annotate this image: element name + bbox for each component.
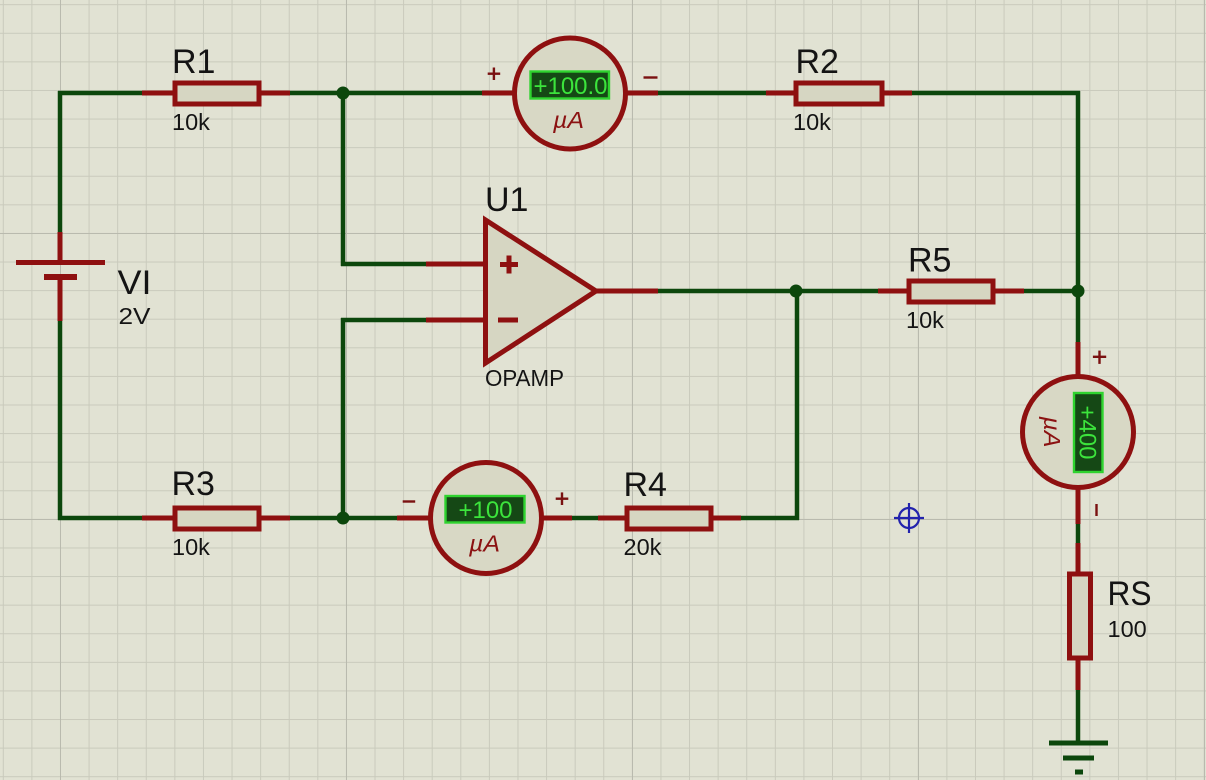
ground (1049, 741, 1108, 775)
label AM2 uA (468, 531, 500, 557)
wire right column vertical (1076, 91, 1081, 344)
label RS (1108, 575, 1152, 613)
op-amp U1 (426, 220, 658, 363)
wire AM2 to R4 (570, 516, 600, 521)
wire opamp output to R5 (656, 289, 880, 294)
wire AM3 to RS (1076, 522, 1081, 545)
svg-text:10k: 10k (793, 109, 831, 135)
svg-text:µA: µA (1039, 415, 1065, 447)
label R4 value 20k (624, 534, 662, 560)
svg-text:+100.0: +100.0 (533, 73, 607, 100)
svg-text:2V: 2V (119, 303, 151, 329)
label R3 value 10k (172, 534, 210, 560)
svg-text:U1: U1 (485, 181, 528, 219)
wire left column upper vertical (58, 91, 63, 234)
label AM2 plus (556, 492, 569, 505)
label R2 value 10k (793, 109, 831, 135)
junction node B (R3 right) (337, 512, 350, 525)
label R5 (908, 242, 951, 280)
svg-text:10k: 10k (172, 109, 210, 135)
wire node A vertical to noninverting input (341, 91, 346, 266)
wire R2 to top-right corner (910, 91, 1080, 96)
resistor R3 (142, 508, 290, 529)
resistor R2 (766, 83, 912, 104)
label U1 (485, 181, 528, 219)
label U1 value OPAMP (485, 365, 564, 391)
wire noninverting input horizontal (341, 262, 428, 267)
label R1 value 10k (172, 109, 210, 135)
label VI value 2V (119, 303, 151, 329)
wire top-left horizontal (58, 91, 144, 96)
junction node C (output / feedback) (790, 285, 803, 298)
label R5 value 10k (906, 307, 944, 333)
resistor R1 (142, 83, 290, 104)
label AM3 plus (1093, 351, 1106, 364)
svg-text:+400: +400 (1074, 405, 1101, 459)
origin marker (894, 503, 924, 533)
svg-text:+100: +100 (458, 497, 512, 524)
resistor RS (1070, 543, 1091, 690)
wire feedback vertical (795, 289, 800, 520)
wire RS to ground (1076, 688, 1081, 745)
battery VI (16, 232, 105, 321)
svg-text:10k: 10k (906, 307, 944, 333)
wire inverting input vertical (341, 318, 346, 520)
ammeter AM3 (right, +400 uA) (1023, 342, 1134, 524)
svg-text:R3: R3 (172, 465, 215, 503)
label R2 (796, 43, 839, 81)
wire inverting input horizontal (341, 318, 428, 323)
resistor R4 (598, 508, 741, 529)
label R4 (624, 466, 667, 504)
svg-text:RS: RS (1108, 575, 1152, 613)
resistor R5 (878, 281, 1024, 302)
label AM3 minus (1095, 504, 1097, 516)
wire bottom-left horizontal (58, 516, 144, 521)
svg-text:R2: R2 (796, 43, 839, 81)
wire AM1 to R2 (656, 91, 768, 96)
svg-text:µA: µA (552, 107, 584, 133)
ammeter AM2 (bottom, +100 uA) (397, 463, 572, 574)
label VI (118, 264, 152, 302)
junction node A (R1 right) (337, 87, 350, 100)
label AM1 uA (552, 107, 584, 133)
wire left column lower vertical (58, 319, 63, 520)
junction node D (R5 right) (1072, 285, 1085, 298)
svg-text:100: 100 (1108, 616, 1147, 642)
ammeter AM1 (top, +100.0 uA) (482, 38, 658, 149)
label AM1 plus (488, 68, 501, 81)
wire R1 to ammeter AM1 (288, 91, 484, 96)
svg-text:VI: VI (118, 264, 152, 302)
label RS value 100 (1108, 616, 1147, 642)
svg-text:R1: R1 (172, 43, 215, 81)
svg-text:µA: µA (468, 531, 500, 557)
wire R4 to feedback corner (739, 516, 799, 521)
wire R3 to ammeter AM2 (288, 516, 399, 521)
svg-text:10k: 10k (172, 534, 210, 560)
label AM2 minus (403, 500, 416, 502)
wire R5 to right column (1022, 289, 1078, 294)
svg-text:R4: R4 (624, 466, 667, 504)
label AM1 minus (644, 76, 658, 78)
label AM3 uA (1039, 415, 1065, 447)
svg-text:OPAMP: OPAMP (485, 365, 564, 391)
label R3 (172, 465, 215, 503)
label R1 (172, 43, 215, 81)
svg-text:20k: 20k (624, 534, 662, 560)
svg-text:R5: R5 (908, 242, 951, 280)
